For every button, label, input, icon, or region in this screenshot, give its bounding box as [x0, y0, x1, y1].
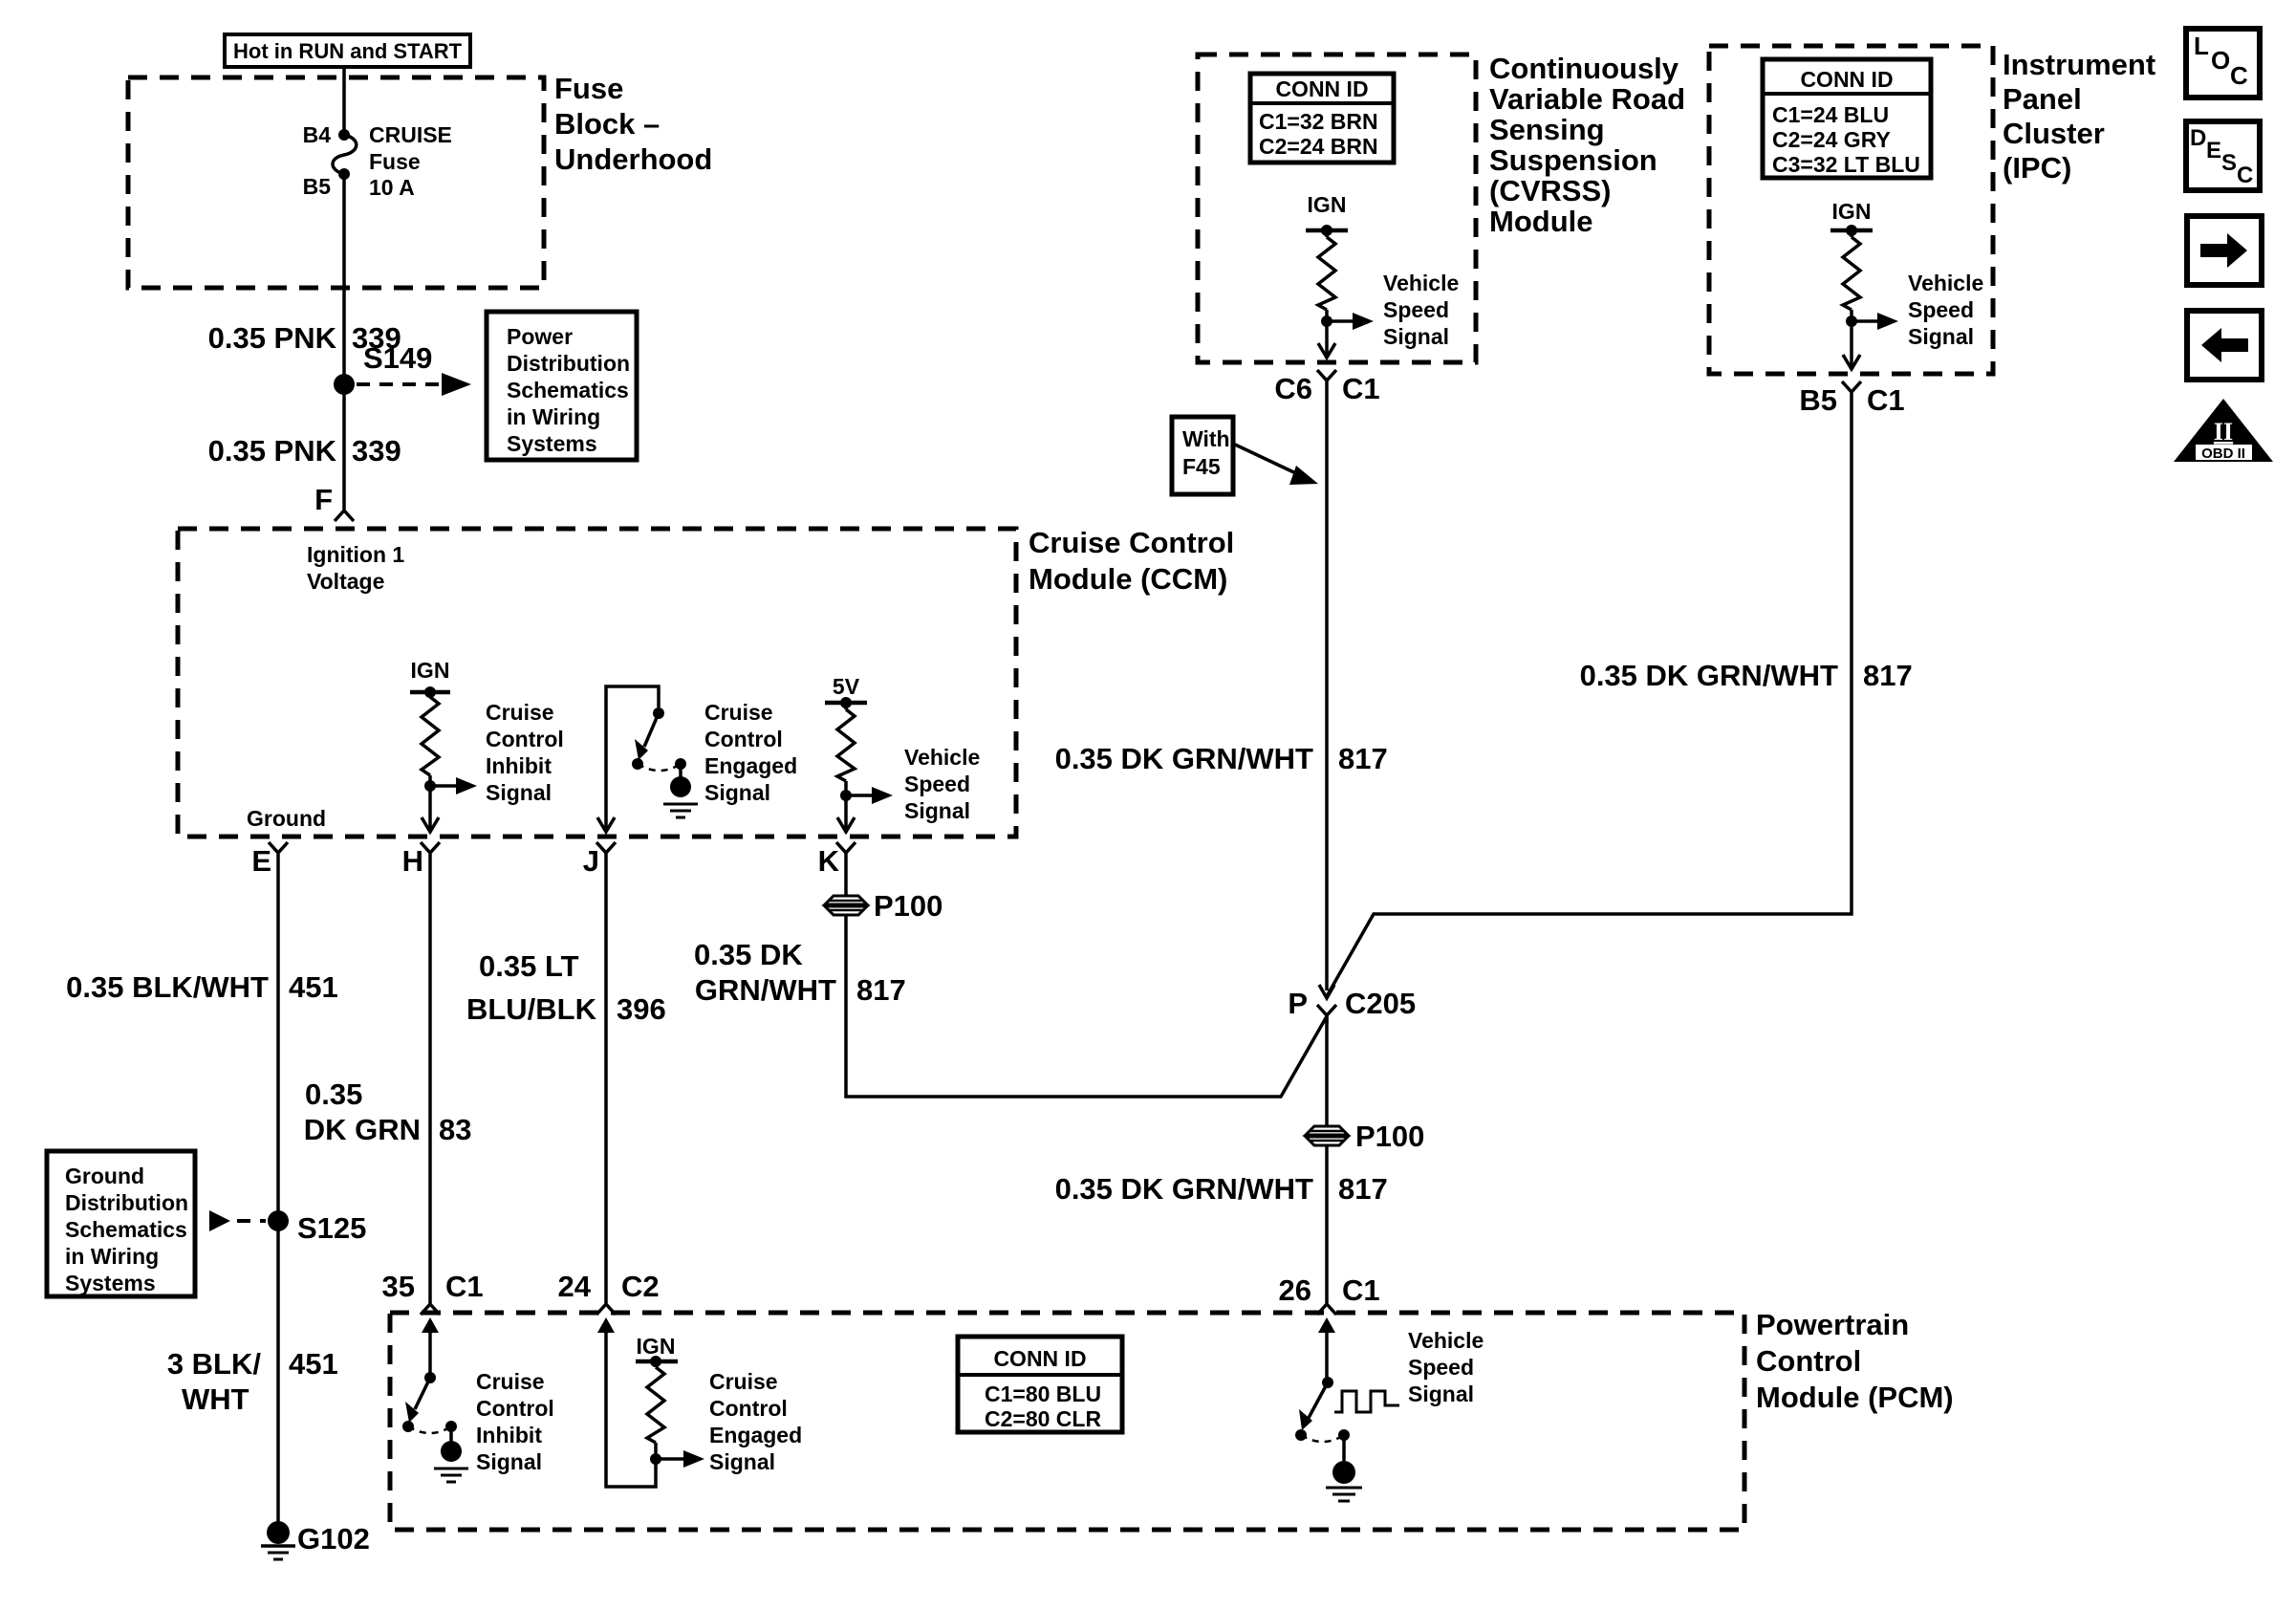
svg-text:817: 817 [1863, 659, 1913, 692]
svg-text:BLU/BLK: BLU/BLK [466, 992, 597, 1026]
svg-text:Suspension: Suspension [1489, 143, 1657, 177]
pin 35 C1 fork into PCM [382, 1270, 484, 1315]
node CONN ID table (IPC) [1763, 59, 1931, 178]
CVRSS module box [1198, 54, 1476, 362]
svg-text:L: L [2194, 32, 2209, 60]
wire label 0.35 LT BLU/BLK 396 [466, 949, 666, 1026]
node cruise control inhibit signal arrow [424, 700, 564, 805]
wire 83 from pin H to PCM 35 [428, 859, 432, 1298]
svg-text:451: 451 [289, 970, 338, 1004]
IPC title [2003, 48, 2155, 185]
svg-text:K: K [818, 844, 840, 878]
svg-text:B4: B4 [303, 122, 332, 147]
svg-text:Engaged: Engaged [704, 753, 797, 778]
resistor CCM vss pull-up [837, 703, 855, 795]
svg-text:C3=32 LT BLU: C3=32 LT BLU [1772, 152, 1920, 177]
pin B5 C1 fork (IPC) [1799, 381, 1904, 417]
wire PCM pin 24 to resistor bottom [597, 1317, 656, 1487]
svg-text:H: H [402, 844, 423, 878]
wire label 0.35 PNK 339 lower [208, 434, 401, 468]
svg-text:G102: G102 [297, 1522, 370, 1556]
svg-text:B5: B5 [303, 174, 332, 199]
dashed arrow from ground distribution to S125 [209, 1210, 266, 1231]
svg-text:Signal: Signal [709, 1449, 775, 1474]
svg-text:817: 817 [1338, 742, 1388, 775]
svg-text:Cruise: Cruise [704, 700, 773, 725]
svg-text:P100: P100 [874, 889, 942, 923]
wire 817 from pin K down and over to C205 [846, 859, 1327, 1097]
svg-text:F: F [314, 483, 333, 516]
icon arrow left [2187, 311, 2262, 380]
square wave symbol [1334, 1391, 1399, 1412]
svg-text:0.35 DK GRN/WHT: 0.35 DK GRN/WHT [1055, 742, 1313, 775]
svg-text:C2=24 GRY: C2=24 GRY [1772, 127, 1891, 152]
node cruise control inhibit signal label (PCM) [476, 1369, 554, 1474]
svg-text:IGN: IGN [1832, 199, 1872, 224]
wire hot feed into fuse block [342, 67, 346, 135]
node Power Distribution Schematics in Wiring Systems [487, 312, 637, 460]
svg-text:C: C [2230, 61, 2248, 90]
PCM title [1756, 1308, 1954, 1414]
svg-text:Block –: Block – [554, 107, 660, 141]
svg-text:(IPC): (IPC) [2003, 151, 2071, 185]
svg-text:CONN ID: CONN ID [1275, 76, 1368, 101]
node cruise control engaged signal label [704, 700, 797, 805]
node vehicle speed signal arrow (IPC) [1846, 271, 1983, 349]
svg-text:Vehicle: Vehicle [904, 745, 980, 770]
svg-text:Cruise: Cruise [476, 1369, 545, 1394]
wire label 0.35 DK GRN/WHT 817 (PCM branch) [1055, 1172, 1388, 1206]
svg-text:Inhibit: Inhibit [486, 753, 552, 778]
svg-text:83: 83 [439, 1113, 471, 1146]
net IGN (CCM) [410, 658, 450, 698]
fuse block underhood box [128, 77, 544, 288]
svg-text:B5: B5 [1799, 383, 1837, 417]
wire inhibit to pin H with down arrow [422, 786, 439, 833]
terminal F fork into CCM [314, 483, 354, 521]
svg-text:3 BLK/: 3 BLK/ [167, 1347, 262, 1381]
svg-text:Speed: Speed [1383, 297, 1449, 322]
svg-text:Vehicle: Vehicle [1383, 271, 1459, 295]
wire 396 from pin J to PCM 24 [604, 859, 608, 1298]
svg-text:C2=80 CLR: C2=80 CLR [985, 1406, 1101, 1431]
svg-text:0.35 PNK: 0.35 PNK [208, 321, 337, 355]
wire ground circuit 451 from pin E to G102 [276, 859, 280, 1526]
svg-text:C: C [2237, 163, 2253, 188]
svg-text:S: S [2221, 150, 2237, 176]
svg-text:Signal: Signal [486, 780, 552, 805]
instrument panel cluster box [1709, 46, 1993, 374]
svg-text:With: With [1182, 426, 1230, 451]
svg-text:J: J [583, 844, 599, 878]
powertrain control module box [390, 1313, 1744, 1530]
CVRSS title [1489, 52, 1685, 238]
svg-text:0.35: 0.35 [305, 1077, 362, 1111]
pin C6 C1 fork (CVRSS) [1274, 370, 1379, 405]
node CONN ID table (PCM) [958, 1337, 1122, 1432]
wire label 0.35 DK GRN/WHT 817 (K branch) [694, 938, 906, 1007]
cruise control module box [178, 529, 1016, 837]
svg-text:C6: C6 [1274, 372, 1312, 405]
node cruise control engaged signal label (PCM) [709, 1369, 802, 1474]
node vehicle speed signal arrow (CVRSS) [1321, 271, 1459, 349]
svg-text:396: 396 [617, 992, 666, 1026]
svg-text:OBD II: OBD II [2201, 446, 2245, 462]
svg-text:Distribution: Distribution [65, 1190, 188, 1215]
svg-text:E: E [251, 844, 271, 878]
net IGN (IPC) [1830, 199, 1873, 236]
svg-text:S149: S149 [363, 341, 432, 375]
svg-text:Variable Road: Variable Road [1489, 82, 1685, 116]
svg-text:Systems: Systems [507, 431, 597, 456]
svg-text:F45: F45 [1182, 454, 1221, 479]
svg-text:Ignition 1: Ignition 1 [307, 542, 404, 567]
svg-text:GRN/WHT: GRN/WHT [695, 973, 836, 1007]
svg-text:WHT: WHT [182, 1382, 249, 1416]
wire 817 from C205 down to PCM pin 26 [1325, 1015, 1329, 1286]
svg-text:Speed: Speed [1908, 297, 1974, 322]
svg-text:Module (CCM): Module (CCM) [1029, 562, 1227, 596]
connector C205 pin P [1288, 985, 1416, 1023]
svg-text:Continuously: Continuously [1489, 52, 1679, 85]
svg-text:26: 26 [1279, 1273, 1311, 1307]
svg-text:E: E [2206, 138, 2221, 163]
svg-text:C205: C205 [1345, 987, 1416, 1020]
svg-text:C1: C1 [1342, 372, 1380, 405]
wire fuse output to terminal F [342, 174, 346, 505]
svg-text:S125: S125 [297, 1211, 366, 1245]
svg-text:Signal: Signal [1408, 1382, 1474, 1406]
svg-text:Instrument: Instrument [2003, 48, 2155, 81]
svg-text:Schematics: Schematics [507, 378, 629, 402]
svg-text:Cluster: Cluster [2003, 117, 2105, 150]
svg-text:Vehicle: Vehicle [1408, 1328, 1484, 1353]
svg-text:C1=24 BLU: C1=24 BLU [1772, 102, 1889, 127]
svg-text:Cruise: Cruise [709, 1369, 778, 1394]
svg-text:Control: Control [1756, 1344, 1861, 1378]
svg-text:Schematics: Schematics [65, 1217, 187, 1242]
wire IPC vss to pin B5 with down arrow [1843, 321, 1860, 370]
node cruise control engaged signal arrow (PCM) [650, 1450, 704, 1468]
svg-text:817: 817 [1338, 1172, 1388, 1206]
splice S149 [334, 341, 432, 395]
svg-text:Hot in RUN and START: Hot in RUN and START [233, 39, 463, 63]
svg-text:0.35 DK: 0.35 DK [694, 938, 803, 971]
CCM title [1029, 526, 1234, 596]
svg-text:CRUISE: CRUISE [369, 122, 452, 147]
node With F45 [1172, 417, 1318, 494]
svg-text:C1: C1 [1867, 383, 1905, 417]
node Hot in RUN and START [225, 34, 470, 67]
svg-text:Module: Module [1489, 205, 1593, 238]
svg-text:Vehicle: Vehicle [1908, 271, 1983, 295]
svg-text:Power: Power [507, 324, 573, 349]
svg-text:Ground: Ground [247, 806, 326, 831]
net IGN (PCM) [636, 1334, 678, 1367]
svg-text:817: 817 [856, 973, 906, 1007]
svg-text:CONN ID: CONN ID [993, 1346, 1086, 1371]
node Ground Distribution Schematics in Wiring Systems [47, 1151, 195, 1296]
svg-text:C1: C1 [1342, 1273, 1380, 1307]
svg-text:339: 339 [352, 434, 401, 468]
node CONN ID table (CVRSS) [1250, 74, 1394, 163]
switch CCM cruise engaged [597, 686, 698, 832]
pin H fork [402, 842, 440, 878]
svg-text:C1=32 BRN: C1=32 BRN [1259, 109, 1378, 134]
svg-text:Distribution: Distribution [507, 351, 630, 376]
svg-text:Control: Control [704, 727, 783, 751]
svg-text:Sensing: Sensing [1489, 113, 1605, 146]
wire label 0.35 DK GRN 83 [304, 1077, 472, 1146]
svg-text:Cruise Control: Cruise Control [1029, 526, 1234, 559]
svg-text:0.35 DK GRN/WHT: 0.35 DK GRN/WHT [1580, 659, 1838, 692]
fuse F CRUISE 10A [303, 122, 452, 200]
net IGN (CVRSS) [1306, 192, 1348, 236]
svg-text:C1=80 BLU: C1=80 BLU [985, 1382, 1101, 1406]
svg-text:Underhood: Underhood [554, 142, 712, 176]
icon LOC [2186, 29, 2260, 98]
svg-text:P100: P100 [1355, 1120, 1424, 1153]
svg-text:C2: C2 [621, 1270, 660, 1303]
pin E fork [251, 842, 288, 878]
svg-text:Voltage: Voltage [307, 569, 384, 594]
wire CVRSS vss to pin C6 with down arrow [1318, 321, 1335, 359]
svg-text:Control: Control [476, 1396, 554, 1421]
svg-text:Control: Control [709, 1396, 788, 1421]
svg-text:in Wiring: in Wiring [65, 1244, 159, 1269]
resistor IPC vss pull-up [1843, 230, 1860, 321]
svg-text:Inhibit: Inhibit [476, 1423, 542, 1447]
pin 26 C1 fork into PCM [1279, 1273, 1380, 1315]
wire label 0.35 DK GRN/WHT 817 (CVRSS branch) [1055, 742, 1388, 775]
pin 24 C2 fork into PCM [558, 1270, 660, 1315]
svg-text:Panel: Panel [2003, 82, 2082, 116]
pass-through grommet P100 on C205 branch [1306, 1120, 1424, 1153]
svg-text:II: II [2214, 418, 2233, 446]
svg-text:IGN: IGN [637, 1334, 676, 1359]
svg-text:Signal: Signal [1383, 324, 1449, 349]
net 5V (CCM) [825, 674, 867, 708]
switch PCM cruise inhibit [402, 1317, 468, 1482]
wire label 3 BLK/ WHT 451 [167, 1347, 338, 1416]
wire vss to pin K with down arrow [837, 795, 855, 833]
wire 817 IPC B5 down and over to C205 [1327, 400, 1852, 996]
fuse block title [554, 72, 712, 176]
wire label 0.35 BLK/WHT 451 [66, 970, 338, 1004]
svg-text:Signal: Signal [476, 1449, 542, 1474]
resistor CVRSS vss pull-up [1318, 230, 1335, 321]
splice S125 [268, 1210, 366, 1245]
node vehicle speed signal label (PCM) [1408, 1328, 1484, 1406]
ground G102 [261, 1521, 370, 1559]
svg-text:Fuse: Fuse [554, 72, 623, 105]
svg-text:(CVRSS): (CVRSS) [1489, 174, 1611, 207]
svg-text:C1: C1 [445, 1270, 484, 1303]
wire label 0.35 DK GRN/WHT 817 (IPC branch) [1580, 659, 1913, 692]
dashed arrow to power distribution [357, 373, 471, 396]
svg-text:CONN ID: CONN ID [1800, 67, 1893, 92]
icon OBD II triangle [2174, 399, 2273, 462]
svg-text:Signal: Signal [1908, 324, 1974, 349]
svg-text:Speed: Speed [1408, 1355, 1474, 1380]
icon DESC [2186, 121, 2260, 190]
svg-text:Powertrain: Powertrain [1756, 1308, 1909, 1341]
pass-through grommet P100 on K branch [825, 889, 942, 923]
svg-text:D: D [2190, 125, 2206, 151]
svg-text:Engaged: Engaged [709, 1423, 802, 1447]
svg-text:Module (PCM): Module (PCM) [1756, 1381, 1954, 1414]
svg-text:Cruise: Cruise [486, 700, 554, 725]
svg-text:24: 24 [558, 1270, 592, 1303]
svg-text:0.35 BLK/WHT: 0.35 BLK/WHT [66, 970, 269, 1004]
svg-text:Control: Control [486, 727, 564, 751]
svg-text:0.35 DK GRN/WHT: 0.35 DK GRN/WHT [1055, 1172, 1313, 1206]
svg-text:DK GRN: DK GRN [304, 1113, 421, 1146]
svg-text:0.35 LT: 0.35 LT [479, 949, 579, 983]
resistor PCM engaged pull-up [647, 1361, 664, 1453]
svg-text:Speed: Speed [904, 772, 970, 796]
svg-text:5V: 5V [833, 674, 860, 699]
pin J fork [583, 842, 616, 878]
wire label 0.35 PNK 339 upper [208, 321, 401, 355]
node Ignition 1 Voltage [307, 542, 404, 594]
svg-text:IGN: IGN [411, 658, 450, 683]
svg-text:Ground: Ground [65, 1164, 144, 1188]
svg-text:in Wiring: in Wiring [507, 404, 600, 429]
node vehicle speed signal arrow (CCM) [840, 745, 980, 823]
pin K fork [818, 842, 856, 878]
svg-text:35: 35 [382, 1270, 415, 1303]
icon arrow right [2187, 216, 2262, 285]
svg-text:Signal: Signal [904, 798, 970, 823]
resistor CCM inhibit pull-up [422, 692, 439, 786]
svg-text:451: 451 [289, 1347, 338, 1381]
svg-text:IGN: IGN [1308, 192, 1347, 217]
svg-text:Fuse: Fuse [369, 149, 421, 174]
svg-text:P: P [1288, 987, 1308, 1020]
svg-text:C2=24 BRN: C2=24 BRN [1259, 134, 1378, 159]
svg-text:O: O [2211, 46, 2230, 75]
switch PCM vehicle speed signal [1295, 1317, 1362, 1501]
svg-text:Signal: Signal [704, 780, 770, 805]
svg-text:0.35 PNK: 0.35 PNK [208, 434, 337, 468]
svg-text:10 A: 10 A [369, 175, 415, 200]
wire 817 CVRSS C1 down to C205 [1325, 388, 1329, 990]
svg-text:Systems: Systems [65, 1271, 156, 1295]
